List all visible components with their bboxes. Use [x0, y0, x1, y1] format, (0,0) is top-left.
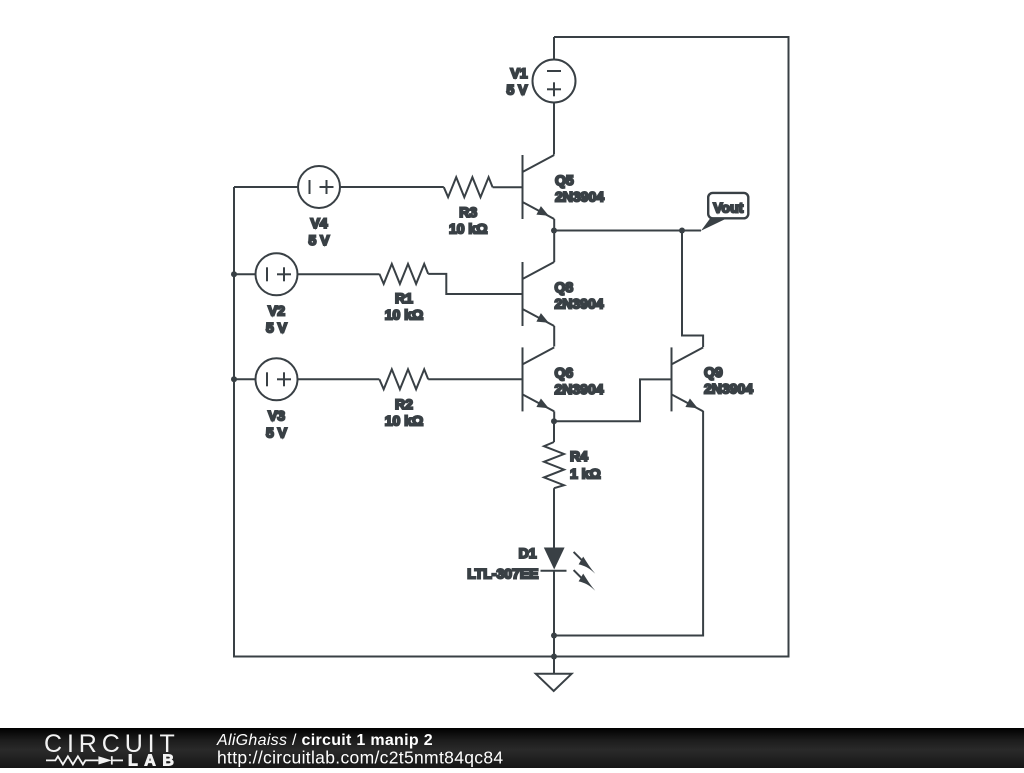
wire: top rail from V1 to right border — [234, 37, 789, 657]
wire: Q6 emitter stub to node — [553, 411, 555, 421]
svg-text:10 kΩ: 10 kΩ — [385, 413, 423, 429]
svg-text:1 kΩ: 1 kΩ — [570, 465, 601, 481]
voltage source V2 5 V — [256, 253, 298, 335]
resistor R2 10 kOhm — [379, 369, 428, 428]
svg-text:2N3904: 2N3904 — [555, 381, 604, 397]
transistor Q5 2N3904 — [523, 155, 605, 219]
node: Q5 emitter / Q8 collector junction — [551, 228, 557, 234]
wire: Q5 emitter stub to Vout node — [553, 219, 555, 231]
wire: V2 to R1 — [298, 273, 380, 275]
svg-text:5 V: 5 V — [266, 424, 288, 440]
voltage source V4 5 V — [298, 166, 340, 248]
ground — [536, 657, 572, 692]
wire: Q9 emitter down to LED bottom rail — [554, 411, 703, 636]
node: left border / V2 branch — [231, 271, 237, 277]
wire: V3 left lead — [234, 378, 256, 380]
voltage source V3 5 V — [256, 358, 298, 440]
wire: LED to bottom rail — [553, 571, 555, 636]
svg-text:V4: V4 — [310, 215, 327, 231]
wire: V4 to R3 — [340, 186, 444, 188]
svg-text:5 V: 5 V — [308, 232, 330, 248]
wire: R3 to Q5 base — [493, 186, 523, 188]
svg-text:LAB: LAB — [128, 753, 180, 769]
wire: V1 top stem — [553, 37, 555, 60]
wire: down to ground rail — [553, 636, 555, 657]
wire: R1 dogleg to Q8 base — [428, 274, 522, 294]
wire: R4 to LED D1 — [553, 488, 555, 547]
wire: node down to R4 — [553, 421, 555, 442]
svg-text:Q9: Q9 — [704, 364, 723, 380]
svg-text:V2: V2 — [268, 302, 285, 318]
wire: Q9 base dogleg to Q6 emitter node — [554, 379, 672, 421]
node: LED / Q9 emitter rail junction — [551, 633, 557, 639]
wire: R2 to Q6 base — [428, 378, 522, 380]
LED D1 LTL-307EE — [467, 545, 595, 591]
svg-text:R1: R1 — [395, 290, 413, 306]
svg-text:Q6: Q6 — [555, 365, 574, 381]
svg-text:http://circuitlab.com/c2t5nmt8: http://circuitlab.com/c2t5nmt84qc84 — [217, 748, 503, 768]
node: ground rail junction — [551, 654, 557, 660]
svg-text:R4: R4 — [570, 448, 588, 464]
wire: V2 left lead — [234, 273, 256, 275]
wire: Q8 emitter to Q6 collector — [553, 326, 555, 347]
wire: stub to Vout flag — [682, 230, 701, 232]
svg-text:AliGhaiss / circuit 1 manip 2: AliGhaiss / circuit 1 manip 2 — [216, 732, 433, 749]
svg-text:Q8: Q8 — [555, 279, 574, 295]
svg-text:2N3904: 2N3904 — [555, 189, 604, 205]
wire: V1 to Q5 collector — [553, 103, 555, 155]
node: Vout junction dot — [679, 228, 685, 234]
transistor Q8 2N3904 — [523, 262, 604, 326]
svg-text:5 V: 5 V — [506, 82, 528, 98]
svg-text:R3: R3 — [459, 204, 477, 220]
transistor Q6 2N3904 — [523, 347, 604, 411]
wire: Q8 collector up to Vout node — [553, 231, 555, 263]
node: left border / V3 branch — [231, 376, 237, 382]
svg-text:V1: V1 — [510, 65, 527, 81]
wire: node to Vout junction — [554, 230, 682, 232]
node: Q6 emitter junction — [551, 418, 557, 424]
svg-text:Q5: Q5 — [555, 172, 574, 188]
svg-text:D1: D1 — [519, 545, 537, 561]
svg-text:V3: V3 — [268, 407, 285, 423]
resistor R1 10 kOhm — [379, 264, 428, 323]
CircuitLab logo: resistor-diode squiggle — [46, 756, 123, 764]
transistor Q9 2N3904 — [672, 347, 754, 411]
svg-text:5 V: 5 V — [266, 319, 288, 335]
node flag Vout — [701, 193, 748, 231]
svg-text:LTL-307EE: LTL-307EE — [467, 566, 538, 582]
svg-text:Vout: Vout — [713, 200, 743, 216]
svg-text:2N3904: 2N3904 — [704, 381, 753, 397]
resistor R3 10 kOhm — [444, 177, 493, 236]
wire: V3 to R2 — [298, 378, 380, 380]
voltage source V1 5 V — [506, 60, 575, 103]
svg-text:R2: R2 — [395, 396, 413, 412]
svg-text:2N3904: 2N3904 — [555, 296, 604, 312]
svg-text:10 kΩ: 10 kΩ — [385, 307, 423, 323]
resistor R4 1 kOhm — [544, 442, 601, 488]
wire: V4 left lead from left border — [234, 186, 298, 188]
wire: Vout node down to Q9 collector (dogleg) — [682, 231, 703, 348]
svg-text:10 kΩ: 10 kΩ — [449, 221, 487, 237]
